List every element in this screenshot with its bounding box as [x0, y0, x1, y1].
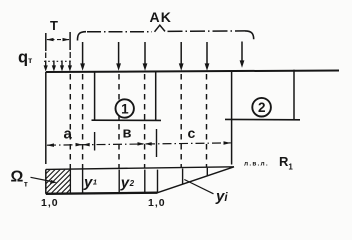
panel 2 left edge (extends to influence axis) [231, 72, 233, 165]
brace under AK: left dashed run [87, 31, 152, 33]
panel 1 bottom line [92, 119, 162, 121]
brace under AK: right dashed run [168, 30, 246, 33]
dimension double arrow at x=144.6 [138, 142, 145, 146]
svg-text:1,0: 1,0 [41, 197, 59, 209]
ordinate divider x=119.2 [118, 170, 120, 194]
AK load arrow 2 [118, 42, 120, 65]
svg-text:в: в [123, 126, 132, 142]
extension tick x=156.5 [156, 129, 158, 157]
ordinate divider x=144.8 [144, 170, 146, 193]
small load arrow 3 [61, 61, 63, 68]
svg-text:л.в.л.: л.в.л. [244, 161, 269, 168]
projection dashed line x=206.5 [206, 74, 208, 168]
projection dashed line x=181 [180, 74, 182, 168]
T dimension left tick [45, 33, 47, 51]
left support edge [45, 72, 47, 164]
dimension chain line a-b-c [47, 143, 231, 145]
AK load arrow 4 [180, 42, 182, 65]
brace under AK: middle peak [155, 25, 166, 32]
ordinate divider x=82.6 [82, 169, 84, 193]
panel 1 right edge [155, 72, 157, 121]
svg-text:AK: AK [150, 9, 173, 25]
T dimension line [47, 39, 69, 41]
small load arrow 2 [53, 61, 55, 68]
T dimension left arrow [46, 38, 53, 41]
panel 2 bottom line [225, 118, 300, 120]
leader line from Omega to hatch [31, 177, 55, 182]
hatching of area under q_T [46, 170, 70, 194]
svg-text:c: c [188, 125, 196, 141]
svg-text:1,0: 1,0 [148, 197, 166, 209]
AK load arrow 3 [144, 42, 146, 65]
small load arrow 4 [69, 61, 71, 68]
AK load arrow 6 [241, 42, 243, 63]
panel 2 right edge [293, 70, 295, 120]
T dimension right arrow [63, 38, 70, 41]
ordinate divider x=157.5 [157, 170, 159, 193]
brace under AK: left hook [77, 32, 86, 41]
projection dashed line x=144.6 [144, 74, 146, 169]
svg-text:a: a [64, 126, 73, 143]
dash link right tick to load strip [69, 52, 71, 58]
circled 2 [252, 98, 271, 117]
ordinate at x=182.6 [182, 169, 184, 185]
projection dashed line x=82.5 [82, 74, 84, 169]
beam top chord [46, 71, 339, 73]
dimension double arrow at x=82.6 [76, 143, 83, 147]
dotted line over small load arrows [44, 60, 72, 62]
AK load arrow 1 [82, 42, 84, 65]
projection dashed line x=70 [69, 74, 71, 169]
brace under AK: right hook [245, 31, 254, 39]
influence line bottom (value 1.0) [46, 193, 158, 194]
small load arrow 1 [45, 61, 47, 68]
ordinate at x=207.3 [206, 168, 208, 176]
panel 1 left edge [94, 72, 96, 121]
extension tick x=94.6 [94, 132, 96, 151]
influence line zero axis [46, 167, 234, 170]
svg-text:T: T [50, 18, 58, 33]
T dimension right tick [69, 32, 71, 50]
influence line closing diagonal [158, 167, 235, 193]
influence line left edge [45, 169, 47, 193]
dash link left tick to load strip [45, 53, 47, 59]
dimension arrow at left support [46, 143, 54, 147]
AK load arrow 5 [206, 42, 208, 65]
leader line for yi [184, 180, 213, 194]
circled 1 [116, 99, 134, 117]
hatch area boundary x=70.4 [69, 169, 71, 193]
svg-text:2: 2 [258, 100, 266, 115]
svg-text:1: 1 [121, 101, 129, 116]
dimension arrow at x=231 [224, 141, 232, 145]
projection dashed line x=119 [118, 74, 120, 169]
